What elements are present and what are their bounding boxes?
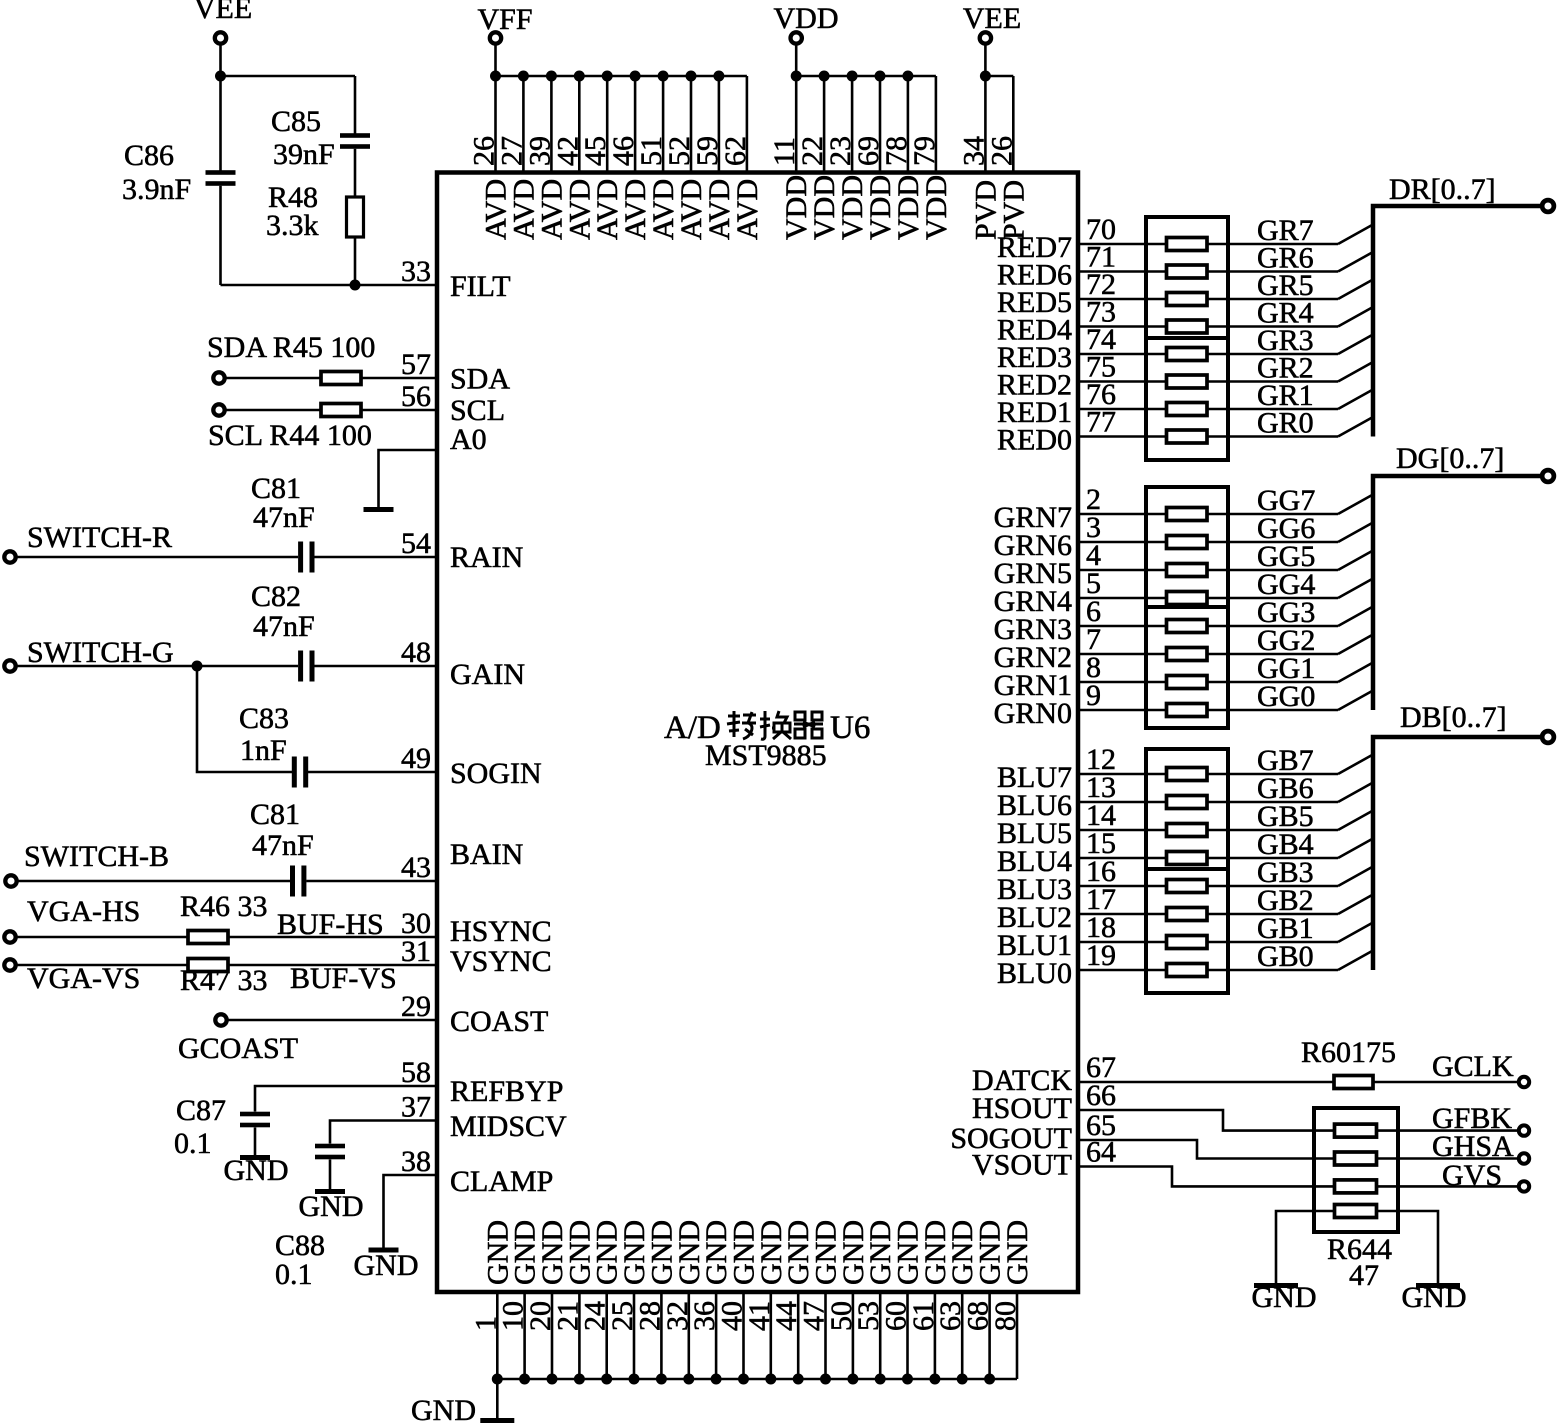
label pin name GRN4 xyxy=(994,585,1072,618)
terminal SWITCH-B terminal xyxy=(5,875,16,886)
label label GG0 xyxy=(1257,680,1315,713)
label bus label DG[0..7] xyxy=(1396,442,1504,475)
bus DR xyxy=(1373,206,1540,437)
label pin number 61 (bottom) xyxy=(907,1301,940,1331)
label pin number 39 (top) xyxy=(523,136,556,166)
label BUF-HS xyxy=(277,908,384,941)
svg-text:VEE: VEE xyxy=(963,2,1021,35)
svg-text:77: 77 xyxy=(1086,406,1116,439)
terminal SCL terminal xyxy=(213,404,224,415)
ground CLAMP ground xyxy=(369,1248,399,1253)
label label GG5 xyxy=(1257,540,1315,573)
label pin number 9 (right) xyxy=(1086,679,1101,712)
label label GR5 xyxy=(1257,269,1314,302)
wire BAIN wire xyxy=(306,880,437,883)
node GND bus junction xyxy=(847,1374,858,1385)
wire BLU7 wire to network xyxy=(1078,773,1167,776)
label SCL R44 100 xyxy=(208,419,372,452)
label pin number 18 (right) xyxy=(1086,911,1116,944)
wire PVD pin wire 2 xyxy=(1012,76,1015,173)
wire GFBK wire xyxy=(1375,1129,1518,1132)
svg-text:57: 57 xyxy=(401,348,431,381)
label pin number 2 (right) xyxy=(1086,483,1101,516)
resistor R60 xyxy=(1334,1076,1373,1089)
node GND bus junction xyxy=(793,1374,804,1385)
wire R48 bottom lead xyxy=(354,237,357,285)
label VGA-HS xyxy=(27,895,140,928)
label pin number 5 (right) xyxy=(1086,567,1101,600)
svg-text:GAIN: GAIN xyxy=(450,658,525,691)
ground C88 ground xyxy=(315,1189,345,1194)
label pin name GND 41 xyxy=(755,1220,788,1285)
svg-text:37: 37 xyxy=(401,1091,431,1124)
label pin name RED7 xyxy=(997,231,1072,264)
svg-text:3.9nF: 3.9nF xyxy=(122,173,191,206)
wire GG6 bus entry diagonal xyxy=(1338,523,1373,543)
label label GR7 xyxy=(1257,214,1314,247)
label pin name GND 20 xyxy=(536,1220,569,1285)
label pin number 41 (bottom) xyxy=(743,1301,776,1331)
label pin name AVD xyxy=(535,179,568,240)
terminal SWITCH-R terminal xyxy=(4,551,15,562)
wire GND pin wire 10 xyxy=(523,1292,526,1379)
ground R644 right ground xyxy=(1416,1283,1460,1288)
resistor RN-G-2 xyxy=(1167,536,1208,549)
node FILT junction xyxy=(350,280,361,291)
wire SCL wire right xyxy=(361,409,437,412)
wire FILT pin 33 wire xyxy=(221,284,438,287)
label pin number 4 (right) xyxy=(1086,539,1101,572)
label label GB7 xyxy=(1257,744,1314,777)
label label GG3 xyxy=(1257,596,1315,629)
label label GR4 xyxy=(1257,297,1314,330)
wire GG2 wire xyxy=(1207,653,1338,656)
label pin name GND 61 xyxy=(919,1220,952,1285)
label C88 value xyxy=(275,1258,313,1291)
wire GND pin wire 47 xyxy=(824,1292,827,1379)
label pin number 51 (top) xyxy=(635,136,668,166)
svg-text:GND: GND xyxy=(1252,1281,1317,1314)
label pin number 80 (bottom) xyxy=(989,1301,1022,1331)
wire GG7 bus entry diagonal xyxy=(1338,495,1373,515)
wire VEE left stub xyxy=(219,45,222,77)
label C86 value xyxy=(122,173,191,206)
label GVS xyxy=(1442,1159,1502,1192)
wire AVD pin wire 7 xyxy=(662,76,665,173)
label pin name RAIN xyxy=(450,541,523,574)
svg-text:REFBYP: REFBYP xyxy=(450,1075,563,1108)
wire SOGIN branch wire xyxy=(197,666,292,772)
label pin number 38 (left) xyxy=(401,1145,431,1178)
node GND bus junction xyxy=(547,1374,558,1385)
ground C87 ground xyxy=(240,1155,270,1160)
label bottom GND xyxy=(411,1394,476,1425)
terminal VEE terminal right xyxy=(980,32,991,43)
label GHSA xyxy=(1432,1130,1514,1163)
label pin name GRN6 xyxy=(994,529,1072,562)
wire GHSA wire xyxy=(1375,1157,1518,1160)
label pin number 30 (left) xyxy=(401,907,431,940)
wire GB3 wire xyxy=(1207,885,1338,888)
wire VDD pin wire 6 xyxy=(935,76,938,173)
label pin name GND 68 xyxy=(974,1220,1007,1285)
label pin name GND 36 xyxy=(700,1220,733,1285)
label pin number 56 (left) xyxy=(401,380,431,413)
wire VDD stub xyxy=(795,45,798,77)
label pin number 45 (top) xyxy=(579,136,612,166)
wire GB5 bus entry diagonal xyxy=(1338,811,1373,831)
wire GVS wire xyxy=(1375,1185,1518,1188)
resistor R46 xyxy=(188,931,228,944)
svg-text:47: 47 xyxy=(1349,1259,1379,1292)
label label GB4 xyxy=(1257,828,1314,861)
label pin name GND 50 xyxy=(837,1220,870,1285)
wire SWITCH-R wire xyxy=(17,556,299,559)
resistor RN-R-4 xyxy=(1167,320,1208,333)
resistor RN-G-5 xyxy=(1167,620,1208,633)
svg-text:GND: GND xyxy=(411,1394,476,1425)
svg-text:1nF: 1nF xyxy=(240,734,287,767)
resistor RN-G-6 xyxy=(1167,648,1208,661)
resistor RN-R-8 xyxy=(1167,430,1208,443)
label label GR1 xyxy=(1257,379,1314,412)
wire GR7 bus entry diagonal xyxy=(1338,225,1373,245)
resistor RN-B-8 xyxy=(1167,964,1208,977)
svg-text:SWITCH-B: SWITCH-B xyxy=(24,840,169,873)
label label GR3 xyxy=(1257,324,1314,357)
svg-text:GB0: GB0 xyxy=(1257,940,1314,973)
label pin name VDD xyxy=(864,175,897,240)
wire VDD pin wire 4 xyxy=(879,76,882,173)
wire RED4 wire to network xyxy=(1078,325,1167,328)
wire PVD pin wire 1 xyxy=(984,76,987,173)
label R48 ref xyxy=(268,181,318,214)
label pin name GND 21 xyxy=(563,1220,596,1285)
label pin number 26 (top) xyxy=(985,136,1018,166)
label IC title 转换器 (hand-drawn CJK) xyxy=(727,711,823,739)
wire DATCK wire xyxy=(1078,1081,1334,1084)
terminal VGA-VS terminal xyxy=(4,959,15,970)
svg-text:MST9885: MST9885 xyxy=(705,739,827,772)
wire GG5 wire xyxy=(1207,569,1338,572)
terminal GCOAST terminal xyxy=(215,1014,226,1025)
ground bottom ground xyxy=(480,1418,514,1423)
resistor R644-1 xyxy=(1335,1124,1377,1137)
wire GR5 bus entry diagonal xyxy=(1338,280,1373,300)
wire GND pin wire 20 xyxy=(551,1292,554,1379)
label SWITCH-G xyxy=(27,636,174,669)
resistor RN-R-3 xyxy=(1167,293,1208,306)
terminal VDD terminal xyxy=(791,32,802,43)
wire GRN7 wire to network xyxy=(1078,513,1167,516)
label R644 value xyxy=(1349,1259,1379,1292)
terminal GFBK terminal xyxy=(1519,1125,1529,1135)
svg-text:COAST: COAST xyxy=(450,1005,548,1038)
label pin number 16 (right) xyxy=(1086,855,1116,888)
label GFBK xyxy=(1432,1102,1512,1135)
svg-text:SDA R45 100: SDA R45 100 xyxy=(207,331,375,364)
svg-text:47nF: 47nF xyxy=(252,829,314,862)
wire AVD pin wire 4 xyxy=(578,76,581,173)
wire GB3 bus entry diagonal xyxy=(1338,867,1373,887)
wire GB0 wire xyxy=(1207,969,1338,972)
label pin name GND 44 xyxy=(782,1220,815,1285)
label pin number 23 (top) xyxy=(824,136,857,166)
wire GND pin wire 24 xyxy=(605,1292,608,1379)
label pin number 6 (right) xyxy=(1086,595,1101,628)
capacitor C83 xyxy=(292,757,308,788)
label pin number 58 (left) xyxy=(401,1056,431,1089)
label label GG4 xyxy=(1257,568,1315,601)
wire GB2 bus entry diagonal xyxy=(1338,895,1373,915)
wire GB2 wire xyxy=(1207,913,1338,916)
node AVD bus junction xyxy=(713,71,724,82)
terminal GCLK terminal xyxy=(1519,1077,1529,1087)
wire GR2 wire xyxy=(1207,380,1338,383)
label pin number 31 (left) xyxy=(401,935,431,968)
terminal VGA-HS terminal xyxy=(4,931,15,942)
wire GND pin wire 25 xyxy=(633,1292,636,1379)
wire AVD pin wire 5 xyxy=(606,76,609,173)
label pin name COAST xyxy=(450,1005,548,1038)
svg-text:43: 43 xyxy=(401,851,431,884)
wire GB6 bus entry diagonal xyxy=(1338,783,1373,803)
resistor RN-B-1 xyxy=(1167,768,1208,781)
svg-text:58: 58 xyxy=(401,1056,431,1089)
resistor network RN-R box xyxy=(1146,217,1228,460)
label label GR6 xyxy=(1257,242,1314,275)
label VEE right xyxy=(963,2,1021,35)
svg-text:38: 38 xyxy=(401,1145,431,1178)
wire GND pin wire 63 xyxy=(961,1292,964,1379)
label R47 33 xyxy=(180,964,268,997)
label C88 GND xyxy=(299,1190,364,1223)
svg-text:FILT: FILT xyxy=(450,270,511,303)
label GCLK xyxy=(1432,1050,1514,1083)
wire AVD supply bus xyxy=(496,75,747,78)
label pin number 64 (right) xyxy=(1086,1136,1116,1169)
node VEE junction xyxy=(215,71,226,82)
svg-text:R60175: R60175 xyxy=(1301,1036,1396,1069)
wire GG6 wire xyxy=(1207,541,1338,544)
svg-text:C83: C83 xyxy=(239,702,289,735)
resistor RN-B-4 xyxy=(1167,852,1208,865)
label pin name HSYNC xyxy=(450,915,552,948)
label pin number 37 (left) xyxy=(401,1091,431,1124)
wire GB5 wire xyxy=(1207,829,1338,832)
svg-text:GCLK: GCLK xyxy=(1432,1050,1514,1083)
label pin name GND 25 xyxy=(618,1220,651,1285)
wire GG3 bus entry diagonal xyxy=(1338,607,1373,627)
label pin number 34 (top) xyxy=(957,136,990,166)
wire VEE stub xyxy=(984,45,987,77)
wire GR0 wire xyxy=(1207,435,1338,438)
wire GR6 wire xyxy=(1207,270,1338,273)
label R60 175 xyxy=(1301,1036,1396,1069)
label VEE left xyxy=(194,0,252,25)
label VDD xyxy=(774,2,839,35)
label pin number 65 (right) xyxy=(1086,1109,1116,1142)
wire GR4 wire xyxy=(1207,325,1338,328)
wire RED3 wire to network xyxy=(1078,353,1167,356)
wire GG0 wire xyxy=(1207,709,1338,712)
label label GB6 xyxy=(1257,772,1314,805)
node GND bus junction xyxy=(492,1374,503,1385)
label SDA R45 100 xyxy=(207,331,375,364)
wire SDA wire left xyxy=(226,377,322,380)
wire GB4 wire xyxy=(1207,857,1338,860)
label pin number 43 (left) xyxy=(401,851,431,884)
wire GCLK wire xyxy=(1373,1081,1518,1084)
svg-text:C86: C86 xyxy=(124,139,174,172)
label pin number 7 (right) xyxy=(1086,623,1101,656)
label pin number 50 (bottom) xyxy=(825,1301,858,1331)
label pin name BAIN xyxy=(450,838,523,871)
label R644 ref xyxy=(1327,1233,1392,1266)
capacitor C81 xyxy=(298,542,314,573)
label label GG2 xyxy=(1257,624,1315,657)
capacitor C85 xyxy=(340,133,370,149)
label CLAMP GND xyxy=(354,1249,419,1282)
svg-text:GCOAST: GCOAST xyxy=(178,1032,298,1065)
svg-text:GRN0: GRN0 xyxy=(994,697,1072,730)
wire SCL wire left xyxy=(226,409,322,412)
wire MIDSCV wire xyxy=(330,1121,437,1144)
svg-text:SWITCH-R: SWITCH-R xyxy=(27,521,172,554)
label IC title A/D xyxy=(664,710,721,746)
label pin number 8 (right) xyxy=(1086,651,1101,684)
label R46 33 xyxy=(180,890,268,923)
label pin name VDD xyxy=(892,175,925,240)
terminal GVS terminal xyxy=(1519,1181,1529,1191)
wire GB0 bus entry diagonal xyxy=(1338,951,1373,971)
wire RED7 wire to network xyxy=(1078,243,1167,246)
label pin name RED6 xyxy=(997,259,1072,292)
label pin number 69 (top) xyxy=(852,136,885,166)
svg-text:80: 80 xyxy=(989,1301,1022,1331)
svg-text:0.1: 0.1 xyxy=(275,1258,313,1291)
label pin number 10 (bottom) xyxy=(497,1301,530,1331)
wire SOGOUT wire xyxy=(1078,1140,1336,1159)
label pin number 63 (bottom) xyxy=(934,1301,967,1331)
label pin number 78 (top) xyxy=(880,136,913,166)
label GCOAST xyxy=(178,1032,298,1065)
wire GAIN wire xyxy=(315,665,438,668)
wire GB7 wire xyxy=(1207,773,1338,776)
wire GND pin wire 32 xyxy=(687,1292,690,1379)
wire AVD pin wire 1 xyxy=(494,76,497,173)
resistor RN-G-3 xyxy=(1167,564,1208,577)
svg-text:VSOUT: VSOUT xyxy=(972,1149,1072,1182)
node AVD bus junction xyxy=(518,71,529,82)
wire AVD pin wire 6 xyxy=(634,76,637,173)
label label GB3 xyxy=(1257,856,1314,889)
svg-text:SWITCH-G: SWITCH-G xyxy=(27,636,174,669)
label pin name VDD xyxy=(808,175,841,240)
svg-text:AVD: AVD xyxy=(731,179,764,240)
wire GG4 wire xyxy=(1207,597,1338,600)
svg-text:66: 66 xyxy=(1086,1079,1116,1112)
resistor RN-R-5 xyxy=(1167,348,1208,361)
svg-text:GND: GND xyxy=(224,1154,289,1187)
svg-text:0.1: 0.1 xyxy=(174,1127,212,1160)
wire AVD pin wire 8 xyxy=(690,76,693,173)
label pin number 49 (left) xyxy=(401,742,431,775)
wire RED1 wire to network xyxy=(1078,408,1167,411)
svg-text:33: 33 xyxy=(401,255,431,288)
wire VDD supply bus xyxy=(796,75,936,78)
svg-text:GND: GND xyxy=(1001,1220,1034,1285)
wire BLU0 wire to network xyxy=(1078,969,1167,972)
label pin name GND 60 xyxy=(892,1220,925,1285)
svg-text:VDD: VDD xyxy=(920,175,953,240)
bus DB xyxy=(1373,737,1540,970)
wire GR5 wire xyxy=(1207,298,1338,301)
label label GB5 xyxy=(1257,800,1314,833)
svg-text:DB[0..7]: DB[0..7] xyxy=(1400,701,1507,734)
wire GB7 bus entry diagonal xyxy=(1338,755,1373,775)
svg-text:C87: C87 xyxy=(176,1094,226,1127)
wire SDA wire right xyxy=(361,377,437,380)
wire GND stem xyxy=(496,1379,499,1418)
capacitor C82 xyxy=(298,651,314,682)
label pin number 28 (bottom) xyxy=(633,1301,666,1331)
node GND bus junction xyxy=(984,1374,995,1385)
label R644 left GND xyxy=(1252,1281,1317,1314)
svg-text:54: 54 xyxy=(401,527,431,560)
wire GND pin wire 60 xyxy=(906,1292,909,1379)
label pin number 15 (right) xyxy=(1086,827,1116,860)
wire C86 bottom lead xyxy=(219,186,222,285)
wire GND pin wire 80 xyxy=(1016,1292,1019,1379)
node AVD bus junction xyxy=(686,71,697,82)
svg-text:GND: GND xyxy=(299,1190,364,1223)
node SWITCH-G junction xyxy=(192,661,203,672)
svg-text:RED0: RED0 xyxy=(997,424,1072,457)
wire GRN6 wire to network xyxy=(1078,541,1167,544)
label BUF-VS xyxy=(290,962,397,995)
wire GG3 wire xyxy=(1207,625,1338,628)
wire GB1 wire xyxy=(1207,941,1338,944)
node GND bus junction xyxy=(519,1374,530,1385)
label C81 ref xyxy=(251,472,301,505)
wire C85-R48 lead xyxy=(354,149,357,197)
wire AVD pin wire 2 xyxy=(522,76,525,173)
wire GR3 bus entry diagonal xyxy=(1338,335,1373,355)
wire VSYNC wire xyxy=(228,964,437,967)
node AVD bus junction xyxy=(546,71,557,82)
wire REFBYP wire xyxy=(255,1086,437,1112)
label pin number 26 (top) xyxy=(468,136,501,166)
label pin name REFBYP xyxy=(450,1075,563,1108)
svg-text:A0: A0 xyxy=(450,423,487,456)
wire GR4 bus entry diagonal xyxy=(1338,307,1373,327)
label pin name VDD xyxy=(920,175,953,240)
label pin number 48 (left) xyxy=(401,636,431,669)
label pin name BLU6 xyxy=(997,789,1072,822)
label pin name AVD xyxy=(563,179,596,240)
svg-text:U6: U6 xyxy=(830,710,870,746)
label pin name DATCK xyxy=(972,1064,1072,1097)
wire AVD pin wire 3 xyxy=(550,76,553,173)
wire BLU3 wire to network xyxy=(1078,885,1167,888)
label pin number 13 (right) xyxy=(1086,771,1116,804)
label pin name GND 32 xyxy=(673,1220,706,1285)
label pin name GND 63 xyxy=(946,1220,979,1285)
label pin number 79 (top) xyxy=(908,136,941,166)
label pin number 24 (bottom) xyxy=(579,1301,612,1331)
node GND bus junction xyxy=(957,1374,968,1385)
